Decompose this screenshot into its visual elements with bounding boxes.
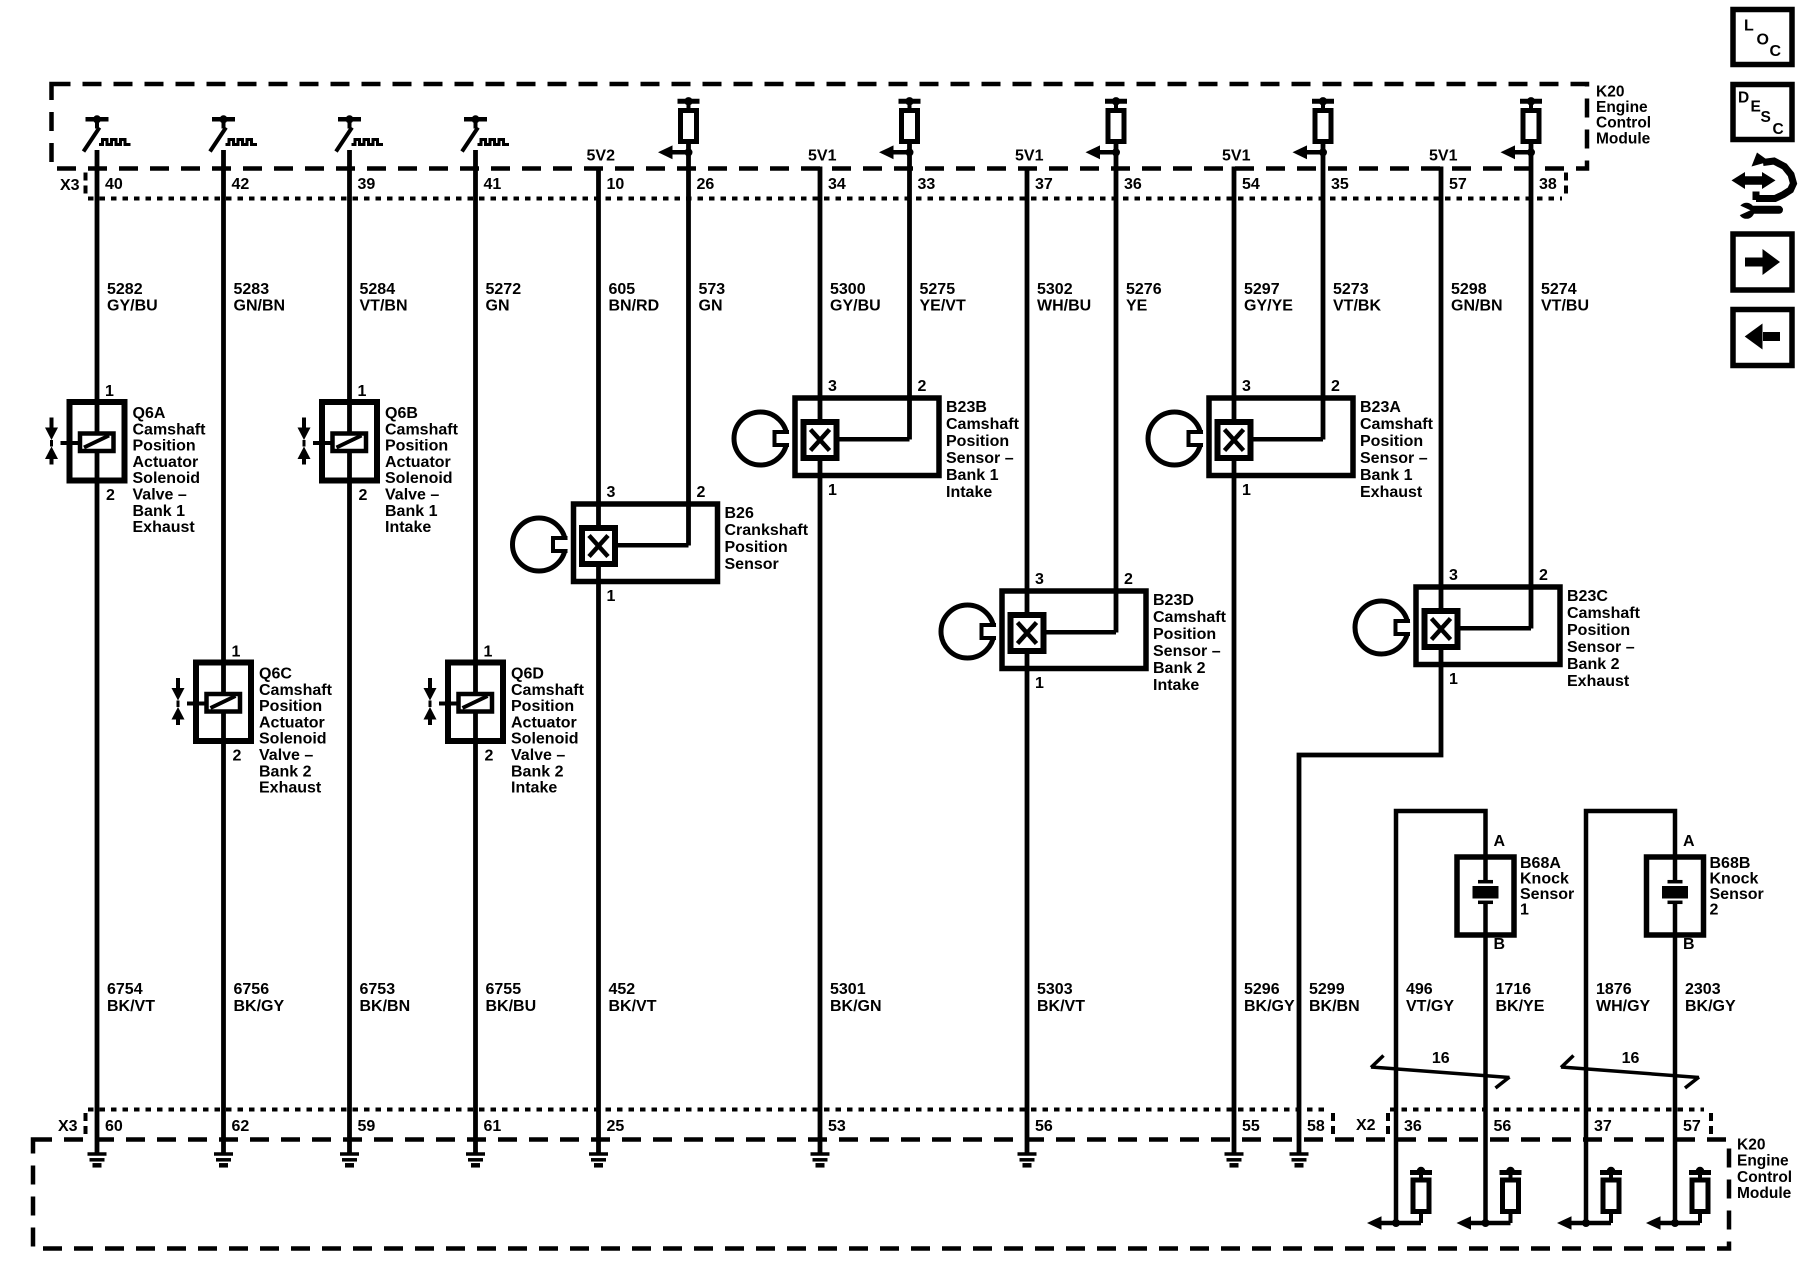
svg-text:5302: 5302: [1037, 281, 1073, 298]
connector X3 bottom dotted line: [88, 1108, 1330, 1112]
ECM input resistor (X2 pin 57): [1646, 1167, 1711, 1230]
svg-text:2: 2: [697, 484, 706, 501]
svg-text:1: 1: [484, 644, 493, 661]
svg-text:C: C: [1770, 43, 1782, 60]
svg-text:10: 10: [607, 176, 625, 193]
svg-text:K20: K20: [1596, 84, 1624, 101]
svg-text:Exhaust: Exhaust: [1567, 673, 1630, 690]
svg-text:Camshaft: Camshaft: [385, 421, 459, 438]
wire 5274 VT/BU pin38 to B23C pin2: [1529, 142, 1534, 629]
svg-text:16: 16: [1622, 1050, 1640, 1067]
svg-text:Actuator: Actuator: [511, 714, 577, 731]
svg-text:35: 35: [1331, 176, 1349, 193]
svg-text:5275: 5275: [920, 281, 956, 298]
icon box DESC: [1733, 85, 1792, 140]
solenoid valve Q6B: [298, 402, 378, 481]
ground symbol (pin 53): [811, 1154, 830, 1165]
svg-text:25: 25: [607, 1118, 625, 1135]
svg-text:GN/BN: GN/BN: [1451, 298, 1503, 315]
svg-text:42: 42: [232, 176, 250, 193]
svg-text:GN: GN: [486, 298, 510, 315]
svg-text:YE/VT: YE/VT: [920, 298, 966, 315]
ground symbol (pin 60): [88, 1154, 107, 1165]
svg-text:1: 1: [1449, 671, 1458, 688]
svg-text:BK/GN: BK/GN: [830, 998, 882, 1015]
knock sensor B68B with wires 1876/2303: [1586, 811, 1704, 1223]
svg-text:5274: 5274: [1541, 281, 1577, 298]
svg-text:5284: 5284: [360, 281, 396, 298]
svg-text:2: 2: [1710, 902, 1719, 919]
svg-text:5V1: 5V1: [1222, 148, 1251, 165]
svg-text:Valve –: Valve –: [385, 487, 439, 504]
svg-text:Position: Position: [259, 698, 322, 715]
svg-text:Bank 2: Bank 2: [1153, 660, 1206, 677]
connector X3 bottom left cap: [84, 1113, 88, 1136]
svg-text:O: O: [1757, 31, 1769, 48]
svg-text:GY/BU: GY/BU: [830, 298, 881, 315]
svg-text:GN/BN: GN/BN: [234, 298, 286, 315]
svg-text:2: 2: [1331, 378, 1340, 395]
icon box left arrow: [1733, 310, 1792, 366]
svg-text:Module: Module: [1596, 130, 1651, 147]
wire 5283 GN/BN pin42 to Q6C to ground pin62: [221, 150, 226, 1153]
svg-text:3: 3: [828, 378, 837, 395]
svg-text:GY/YE: GY/YE: [1244, 298, 1293, 315]
ground symbol (pin 61): [466, 1154, 485, 1165]
svg-text:Camshaft: Camshaft: [511, 682, 585, 699]
wire 5298 GN/BN pin57 to B23C pin3 and 5299 BK/BN jog to ground pin58: [1299, 167, 1441, 1153]
svg-text:2: 2: [1539, 567, 1548, 584]
svg-text:Knock: Knock: [1710, 871, 1759, 888]
connector X3 top dotted line: [88, 197, 1562, 201]
svg-text:Exhaust: Exhaust: [133, 519, 196, 536]
svg-text:Crankshaft: Crankshaft: [725, 522, 809, 539]
svg-text:34: 34: [828, 176, 846, 193]
sensor B23B: [734, 398, 939, 476]
svg-text:6754: 6754: [107, 981, 143, 998]
svg-text:B23D: B23D: [1153, 592, 1194, 609]
svg-text:BK/VT: BK/VT: [609, 998, 657, 1015]
svg-text:Control: Control: [1737, 1169, 1792, 1186]
svg-text:1: 1: [358, 383, 367, 400]
svg-text:55: 55: [1242, 1118, 1260, 1135]
svg-text:BK/BN: BK/BN: [1309, 998, 1360, 1015]
ECM pull-up resistor (pin 36): [1086, 97, 1128, 159]
svg-text:1716: 1716: [1496, 981, 1532, 998]
svg-text:26: 26: [697, 176, 715, 193]
svg-text:Position: Position: [511, 698, 574, 715]
svg-text:1: 1: [1242, 482, 1251, 499]
svg-text:60: 60: [105, 1118, 123, 1135]
svg-text:6756: 6756: [234, 981, 270, 998]
svg-text:5303: 5303: [1037, 981, 1073, 998]
svg-text:2: 2: [918, 378, 927, 395]
svg-text:Intake: Intake: [511, 780, 557, 797]
svg-text:Sensor –: Sensor –: [1567, 639, 1635, 656]
svg-text:38: 38: [1539, 176, 1557, 193]
svg-text:Camshaft: Camshaft: [1360, 416, 1434, 433]
connector X3 top right cap: [1564, 173, 1568, 197]
svg-text:B68B: B68B: [1710, 855, 1751, 872]
svg-text:Sensor: Sensor: [1520, 886, 1574, 903]
svg-text:Position: Position: [1567, 622, 1630, 639]
svg-text:BK/GY: BK/GY: [234, 998, 285, 1015]
svg-text:Intake: Intake: [946, 484, 992, 501]
svg-text:5301: 5301: [830, 981, 866, 998]
ECM pull-up resistor (pin 26): [658, 97, 700, 159]
wire 605 BN/RD pin10 through B26 to ground pin25: [596, 167, 601, 1153]
svg-text:L: L: [1744, 18, 1754, 35]
svg-text:Sensor –: Sensor –: [946, 450, 1014, 467]
svg-text:452: 452: [609, 981, 636, 998]
svg-text:Q6B: Q6B: [385, 405, 418, 422]
svg-text:B23C: B23C: [1567, 588, 1608, 605]
svg-text:2303: 2303: [1685, 981, 1721, 998]
svg-text:C: C: [1773, 121, 1784, 138]
svg-text:62: 62: [232, 1118, 250, 1135]
ECM input resistor (X2 pin 36): [1367, 1167, 1432, 1230]
svg-text:D: D: [1738, 89, 1749, 106]
svg-text:1: 1: [1520, 902, 1529, 919]
svg-text:2: 2: [485, 748, 494, 765]
icon wrench with arrows: [1732, 153, 1794, 219]
svg-text:Q6D: Q6D: [511, 666, 544, 683]
ECM pull-up resistor (pin 38): [1501, 97, 1543, 159]
svg-text:Bank 1: Bank 1: [385, 503, 438, 520]
svg-text:37: 37: [1035, 176, 1053, 193]
sensor B23C: [1355, 587, 1560, 665]
svg-text:S: S: [1761, 109, 1771, 126]
svg-text:605: 605: [609, 281, 636, 298]
svg-text:58: 58: [1307, 1118, 1325, 1135]
svg-text:Engine: Engine: [1596, 99, 1648, 116]
svg-text:Solenoid: Solenoid: [511, 731, 579, 748]
svg-text:5V1: 5V1: [808, 148, 837, 165]
svg-text:Sensor: Sensor: [725, 556, 779, 573]
sensor B23A: [1148, 398, 1353, 476]
svg-text:Bank 1: Bank 1: [1360, 467, 1413, 484]
svg-text:B: B: [1683, 936, 1695, 953]
svg-text:VT/BU: VT/BU: [1541, 298, 1589, 315]
svg-text:Position: Position: [1360, 433, 1423, 450]
svg-text:Camshaft: Camshaft: [259, 682, 333, 699]
wire 573 GN pin26 to B26 pin2: [686, 142, 691, 546]
ground symbol (pin 55): [1225, 1154, 1244, 1165]
svg-text:6755: 6755: [486, 981, 522, 998]
svg-text:5V2: 5V2: [587, 148, 616, 165]
ground symbol (pin 56): [1018, 1154, 1037, 1165]
knock sensor B68A with wires 496/1716: [1396, 811, 1514, 1223]
ECM input resistor (X2 pin 37): [1557, 1167, 1622, 1230]
svg-text:59: 59: [358, 1118, 376, 1135]
svg-text:Control: Control: [1596, 115, 1651, 132]
svg-text:1876: 1876: [1596, 981, 1632, 998]
svg-text:VT/BN: VT/BN: [360, 298, 408, 315]
svg-text:3: 3: [1449, 567, 1458, 584]
icon left arrow: [1763, 332, 1780, 341]
svg-text:Solenoid: Solenoid: [385, 470, 453, 487]
svg-text:57: 57: [1449, 176, 1467, 193]
svg-text:Valve –: Valve –: [133, 487, 187, 504]
svg-text:X3: X3: [58, 1118, 78, 1135]
svg-text:B68A: B68A: [1520, 855, 1561, 872]
svg-text:5282: 5282: [107, 281, 143, 298]
svg-text:Actuator: Actuator: [385, 454, 451, 471]
svg-text:BN/RD: BN/RD: [609, 298, 660, 315]
svg-text:Actuator: Actuator: [133, 454, 199, 471]
wire 5302 WH/BU pin37 through B23D to ground pin56: [1025, 167, 1030, 1153]
svg-text:Position: Position: [946, 433, 1009, 450]
svg-text:A: A: [1683, 833, 1695, 850]
svg-text:Solenoid: Solenoid: [133, 470, 201, 487]
svg-text:BK/GY: BK/GY: [1685, 998, 1736, 1015]
ground symbol (pin 59): [340, 1154, 359, 1165]
connector X3 top left cap: [84, 173, 88, 197]
svg-text:5296: 5296: [1244, 981, 1280, 998]
svg-text:41: 41: [484, 176, 502, 193]
wire 5284 VT/BN pin39 to Q6B to ground pin59: [347, 150, 352, 1153]
svg-text:Bank 2: Bank 2: [511, 763, 564, 780]
wire 5273 VT/BK pin35 to B23A pin2: [1321, 142, 1326, 440]
svg-text:Module: Module: [1737, 1185, 1792, 1202]
svg-text:56: 56: [1035, 1118, 1053, 1135]
svg-text:5V1: 5V1: [1015, 148, 1044, 165]
svg-text:Position: Position: [1153, 626, 1216, 643]
connector X3 bottom right cap: [1331, 1113, 1335, 1136]
svg-text:WH/GY: WH/GY: [1596, 998, 1651, 1015]
svg-text:Knock: Knock: [1520, 871, 1569, 888]
svg-text:BK/VT: BK/VT: [107, 998, 155, 1015]
svg-text:1: 1: [1035, 675, 1044, 692]
svg-text:B23B: B23B: [946, 399, 987, 416]
svg-text:X3: X3: [60, 177, 80, 194]
icon box right arrow: [1733, 234, 1792, 290]
ECM low-side driver output (pin 39): [336, 115, 383, 151]
ground symbol (pin 62): [214, 1154, 233, 1165]
svg-text:B23A: B23A: [1360, 399, 1401, 416]
svg-text:Exhaust: Exhaust: [259, 780, 322, 797]
svg-text:E: E: [1751, 99, 1761, 116]
svg-text:33: 33: [918, 176, 936, 193]
svg-text:2: 2: [106, 487, 115, 504]
ECM input resistor (X2 pin 56): [1457, 1167, 1522, 1230]
svg-text:2: 2: [1124, 571, 1133, 588]
svg-text:5V1: 5V1: [1429, 148, 1458, 165]
svg-text:BK/YE: BK/YE: [1496, 998, 1545, 1015]
solenoid valve Q6D: [424, 663, 504, 742]
ECM low-side driver output (pin 40): [84, 115, 131, 151]
svg-text:A: A: [1494, 833, 1506, 850]
svg-text:Sensor –: Sensor –: [1360, 450, 1428, 467]
solenoid valve Q6C: [172, 663, 252, 742]
svg-text:Camshaft: Camshaft: [1153, 609, 1227, 626]
svg-text:5299: 5299: [1309, 981, 1345, 998]
svg-text:Intake: Intake: [385, 519, 431, 536]
svg-text:K20: K20: [1737, 1137, 1765, 1154]
svg-text:573: 573: [699, 281, 726, 298]
twisted pair symbol for B68B wires: [1561, 1056, 1699, 1089]
svg-text:GY/BU: GY/BU: [107, 298, 158, 315]
svg-text:B26: B26: [725, 505, 754, 522]
svg-text:1: 1: [828, 482, 837, 499]
svg-text:Q6A: Q6A: [133, 405, 166, 422]
svg-text:53: 53: [828, 1118, 846, 1135]
svg-text:57: 57: [1683, 1118, 1701, 1135]
svg-text:3: 3: [1035, 571, 1044, 588]
ECM low-side driver output (pin 42): [210, 115, 257, 151]
svg-text:Exhaust: Exhaust: [1360, 484, 1423, 501]
connector X2 bottom left cap: [1386, 1113, 1390, 1136]
ground symbol (pin 25): [589, 1154, 608, 1165]
svg-text:36: 36: [1404, 1118, 1422, 1135]
svg-text:1: 1: [105, 383, 114, 400]
svg-text:VT/BK: VT/BK: [1333, 298, 1381, 315]
svg-text:5300: 5300: [830, 281, 866, 298]
connector X2 bottom right cap: [1709, 1113, 1713, 1136]
wire 5282 GY/BU pin40 to Q6A to ground pin60: [95, 150, 100, 1153]
twisted pair symbol for B68A wires: [1371, 1056, 1510, 1089]
svg-text:Valve –: Valve –: [259, 747, 313, 764]
svg-text:1: 1: [607, 588, 616, 605]
wire 5272 GN pin41 to Q6D to ground pin61: [473, 150, 478, 1153]
svg-text:16: 16: [1432, 1050, 1450, 1067]
svg-text:56: 56: [1494, 1118, 1512, 1135]
svg-text:Bank 1: Bank 1: [946, 467, 999, 484]
svg-text:61: 61: [484, 1118, 502, 1135]
svg-text:Position: Position: [725, 539, 788, 556]
svg-text:BK/GY: BK/GY: [1244, 998, 1295, 1015]
svg-text:Q6C: Q6C: [259, 666, 292, 683]
svg-text:54: 54: [1242, 176, 1260, 193]
svg-text:5298: 5298: [1451, 281, 1487, 298]
svg-text:BK/BN: BK/BN: [360, 998, 411, 1015]
svg-text:Sensor: Sensor: [1710, 886, 1764, 903]
svg-text:39: 39: [358, 176, 376, 193]
svg-text:Engine: Engine: [1737, 1153, 1789, 1170]
svg-text:B: B: [1494, 936, 1506, 953]
svg-text:5276: 5276: [1126, 281, 1162, 298]
svg-text:Actuator: Actuator: [259, 714, 325, 731]
svg-text:Intake: Intake: [1153, 677, 1199, 694]
svg-text:Bank 2: Bank 2: [1567, 656, 1620, 673]
wire 5297 GY/YE pin54 through B23A to ground pin55: [1232, 167, 1237, 1153]
svg-text:5283: 5283: [234, 281, 270, 298]
svg-text:5273: 5273: [1333, 281, 1369, 298]
svg-text:40: 40: [105, 176, 123, 193]
svg-text:BK/VT: BK/VT: [1037, 998, 1085, 1015]
ECM low-side driver output (pin 41): [462, 115, 509, 151]
wire 5276 YE pin36 to B23D pin2: [1114, 142, 1119, 633]
svg-text:Sensor –: Sensor –: [1153, 643, 1221, 660]
svg-text:WH/BU: WH/BU: [1037, 298, 1091, 315]
svg-text:2: 2: [233, 748, 242, 765]
svg-text:GN: GN: [699, 298, 723, 315]
svg-text:2: 2: [359, 487, 368, 504]
svg-text:3: 3: [1242, 378, 1251, 395]
svg-text:X2: X2: [1356, 1117, 1376, 1134]
svg-text:5297: 5297: [1244, 281, 1280, 298]
ECM pull-up resistor (pin 35): [1293, 97, 1335, 159]
svg-text:Position: Position: [133, 438, 196, 455]
svg-text:Bank 1: Bank 1: [133, 503, 186, 520]
svg-text:Camshaft: Camshaft: [946, 416, 1020, 433]
svg-text:5272: 5272: [486, 281, 522, 298]
ECM top dashed box outline: [52, 84, 1588, 169]
svg-text:Solenoid: Solenoid: [259, 731, 327, 748]
svg-text:496: 496: [1406, 981, 1433, 998]
svg-text:Camshaft: Camshaft: [133, 421, 207, 438]
svg-text:37: 37: [1594, 1118, 1612, 1135]
svg-text:YE: YE: [1126, 298, 1148, 315]
ECM pull-up resistor (pin 33): [879, 97, 921, 159]
svg-text:Camshaft: Camshaft: [1567, 605, 1641, 622]
solenoid valve Q6A: [45, 402, 125, 481]
svg-text:3: 3: [607, 484, 616, 501]
svg-text:Bank 2: Bank 2: [259, 763, 312, 780]
icon right arrow: [1745, 258, 1764, 267]
wire 5275 YE/VT pin33 to B23B pin2: [907, 142, 912, 440]
ECM bottom dashed box outline: [33, 1140, 1729, 1249]
svg-text:Position: Position: [385, 438, 448, 455]
sensor B23D: [941, 591, 1146, 669]
ground symbol (pin 58): [1290, 1154, 1309, 1165]
wire 5300 GY/BU pin34 through B23B to ground pin53: [818, 167, 823, 1153]
svg-text:36: 36: [1124, 176, 1142, 193]
svg-text:BK/BU: BK/BU: [486, 998, 537, 1015]
svg-text:VT/GY: VT/GY: [1406, 998, 1454, 1015]
svg-text:Valve –: Valve –: [511, 747, 565, 764]
connector X2 bottom dotted line: [1390, 1108, 1704, 1112]
sensor B26: [513, 504, 718, 582]
icon box LOC: [1733, 10, 1792, 65]
svg-text:6753: 6753: [360, 981, 396, 998]
svg-text:1: 1: [232, 644, 241, 661]
